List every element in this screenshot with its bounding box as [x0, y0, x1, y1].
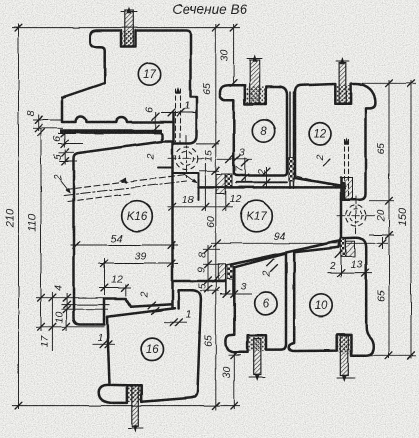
profile 10 reference circle — [310, 294, 332, 316]
hatched strip left of mullion joint — [216, 174, 225, 194]
profile K17 reference circle — [241, 200, 273, 232]
tenon slot stipple of profile 17 — [122, 31, 135, 46]
screw head dashed circle right — [346, 205, 367, 226]
profile 12 outline — [295, 83, 375, 199]
profile 16 reference circle — [141, 338, 163, 360]
profile 17 bottom flange with drip notches — [62, 83, 174, 122]
assembly arrow of tenon 12 — [340, 57, 345, 64]
profile 16 top slope — [107, 308, 175, 317]
hatched strip bottom right — [346, 241, 355, 256]
tenon slot stipple of profile 16 — [128, 386, 141, 402]
profile 8 outline — [220, 85, 287, 175]
phantom arrowhead — [119, 178, 127, 184]
phantom dashed line lower — [68, 194, 131, 202]
joint lines between 8 and 12 — [290, 92, 294, 158]
profile 12 bottom-left edge — [295, 178, 340, 186]
leader for gap 2 left — [61, 181, 70, 193]
hatched joint block right — [341, 178, 353, 200]
profile 17 reference circle — [138, 63, 160, 85]
screw head dashed circle — [175, 147, 198, 170]
tenon slot stipple of profile 8 — [246, 87, 265, 104]
phantom dashed under 12 — [296, 176, 345, 189]
tenon slot stipple of profile 10 — [338, 336, 351, 353]
profile 6 outline — [225, 254, 286, 353]
profile 6 reference circle — [255, 293, 277, 315]
hatched strip bottom joint — [218, 264, 225, 280]
profile K17 right edge — [340, 200, 343, 241]
hidden screw arrow right — [344, 138, 349, 145]
assembly arrow of tenon 10 — [342, 375, 347, 382]
tenon of profile 12 — [339, 63, 346, 104]
tenon of profile 8 — [250, 60, 260, 103]
through tenon walls below — [226, 279, 233, 296]
rebate steps at K16 right — [158, 168, 199, 201]
hidden screw dashed lines right — [345, 140, 349, 201]
glazing bead strip — [60, 129, 162, 134]
tenon slot stipple of profile 6 — [249, 336, 265, 351]
profile 10 outline — [289, 238, 374, 356]
profile K17 bottom sloped edge — [227, 241, 342, 266]
profile 8 reference circle — [252, 120, 274, 142]
profile 16 left side and foot — [99, 317, 142, 403]
profile K16 reference circle — [122, 201, 153, 232]
tenon slot stipple of profile 12 — [336, 85, 349, 103]
checkered mullion tenon block top — [225, 174, 232, 187]
checkered block bottom right — [341, 238, 346, 256]
tenon of profile 6 — [254, 339, 261, 375]
tenon of profile 10 — [340, 336, 348, 376]
profile 16 right side — [141, 290, 201, 401]
hidden screw shank dashed lines — [176, 89, 181, 144]
phantom dashed line upper — [66, 175, 186, 190]
profile K17 top edge — [199, 186, 342, 189]
profile 17 body outline — [90, 31, 196, 144]
leader at impost step — [184, 174, 197, 183]
tenon of profile 16 — [132, 386, 139, 427]
checkered block bottom joint — [227, 265, 233, 279]
screw centerlines — [186, 136, 188, 178]
assembly arrow of tenon 8 — [252, 55, 257, 62]
assembly arrow of tenon 6 — [255, 374, 260, 381]
profile 8 lower rebate line — [236, 181, 287, 183]
tenon of profile 17 — [125, 10, 134, 46]
assembly arrow of tenon 16 — [132, 425, 137, 432]
screw centerlines right — [355, 196, 357, 236]
profile K16 outline — [74, 142, 173, 325]
checkered block between 8 and 12 — [289, 158, 294, 182]
profile 12 reference circle — [309, 123, 331, 145]
hidden screw arrow — [175, 87, 180, 94]
sill piece top edge — [173, 280, 226, 283]
assembly arrow of tenon 17 — [126, 7, 131, 14]
phantom dash-dot axis — [64, 181, 187, 196]
